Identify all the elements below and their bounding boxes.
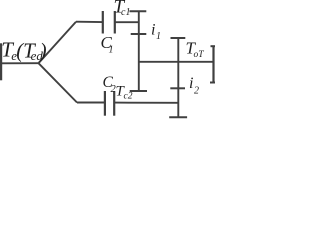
svg-text:oT: oT [194, 50, 205, 60]
wire vertical branch 1 [138, 11, 140, 91]
value label C2 [103, 74, 117, 95]
svg-text:1: 1 [109, 45, 114, 56]
terminal bar Tc1 [130, 10, 147, 12]
node label Te(Ted) [1, 38, 46, 63]
terminal bar Te [0, 43, 2, 80]
svg-text:i: i [151, 22, 155, 39]
svg-text:c1: c1 [121, 7, 130, 18]
current tick i1 [131, 33, 147, 35]
terminal bar bottom of branch 2 [169, 116, 187, 118]
svg-text:): ) [39, 39, 47, 63]
terminal bar bottom of branch 1 [130, 90, 147, 92]
svg-text:1: 1 [156, 31, 161, 42]
svg-text:i: i [189, 75, 193, 92]
current label i1 [151, 22, 161, 43]
wire from Te to branch node [0, 62, 39, 64]
right edge element top bar [211, 45, 216, 47]
wire C2 right plate to branch 2 [114, 102, 179, 104]
wire lower diagonal branch [39, 63, 78, 102]
svg-text:c2: c2 [124, 92, 133, 102]
wire vertical branch 2 [177, 38, 179, 117]
capacitor C1 [103, 11, 115, 34]
right edge element bottom bar [210, 82, 215, 84]
capacitor C2 [105, 91, 114, 116]
wire middle horizontal to ToT [139, 61, 214, 63]
right edge element vertical wire [212, 46, 214, 84]
wire to capacitor C1 left plate [76, 21, 102, 23]
current tick i2 [170, 87, 185, 89]
svg-text:2: 2 [194, 86, 199, 97]
node label Tc2 [116, 84, 133, 102]
wire upper diagonal branch [39, 22, 77, 64]
value label C1 [101, 33, 114, 56]
node label Tc1 [114, 0, 131, 18]
node label ToT [186, 39, 205, 61]
terminal bar ToT [171, 37, 186, 39]
wire C1 right plate to node Tc1 line [115, 21, 139, 23]
current label i2 [189, 75, 199, 97]
wire to capacitor C2 left plate [77, 102, 105, 104]
